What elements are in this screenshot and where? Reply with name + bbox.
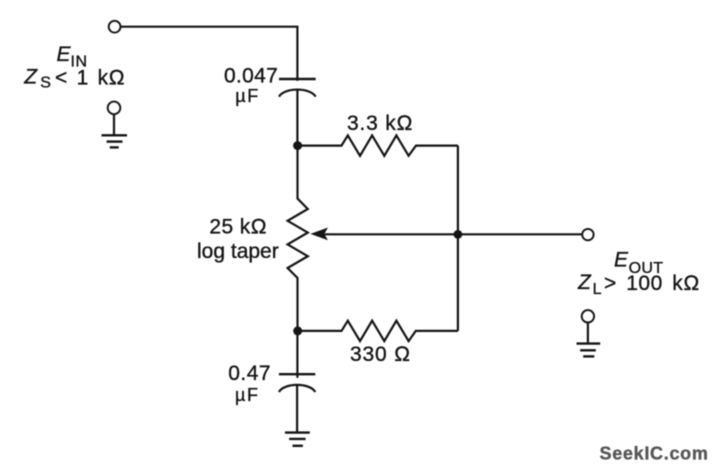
svg-text:E: E [614, 249, 629, 272]
svg-text:< 1 kΩ: < 1 kΩ [55, 66, 125, 89]
svg-text:E: E [57, 43, 72, 66]
svg-text:µF: µF [235, 385, 260, 405]
svg-text:S: S [40, 75, 51, 92]
svg-text:0.47: 0.47 [228, 362, 271, 385]
svg-text:Z: Z [577, 271, 592, 294]
svg-text:> 100 kΩ: > 100 kΩ [604, 272, 700, 295]
svg-text:log taper: log taper [197, 240, 279, 263]
svg-text:SeekIC.com: SeekIC.com [600, 444, 709, 464]
svg-text:µF: µF [235, 86, 260, 106]
svg-text:3.3 kΩ: 3.3 kΩ [347, 112, 413, 135]
svg-text:Z: Z [23, 66, 38, 89]
svg-text:330 Ω: 330 Ω [350, 343, 411, 366]
svg-text:25 kΩ: 25 kΩ [209, 216, 267, 239]
svg-text:L: L [593, 281, 602, 298]
svg-text:0.047: 0.047 [224, 65, 278, 88]
